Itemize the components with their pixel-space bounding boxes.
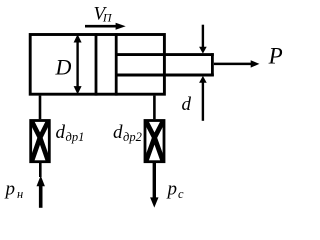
- svg-text:p: p: [4, 179, 16, 200]
- svg-text:d: d: [113, 122, 123, 143]
- svg-text:др2: др2: [123, 130, 142, 144]
- svg-text:н: н: [17, 187, 23, 201]
- svg-text:p: p: [166, 179, 178, 200]
- svg-text:P: P: [268, 43, 283, 68]
- svg-text:d: d: [56, 122, 66, 143]
- svg-text:D: D: [55, 54, 72, 79]
- svg-text:П: П: [102, 11, 113, 25]
- svg-text:др1: др1: [66, 130, 85, 144]
- svg-text:d: d: [182, 94, 192, 115]
- svg-text:c: c: [178, 187, 184, 201]
